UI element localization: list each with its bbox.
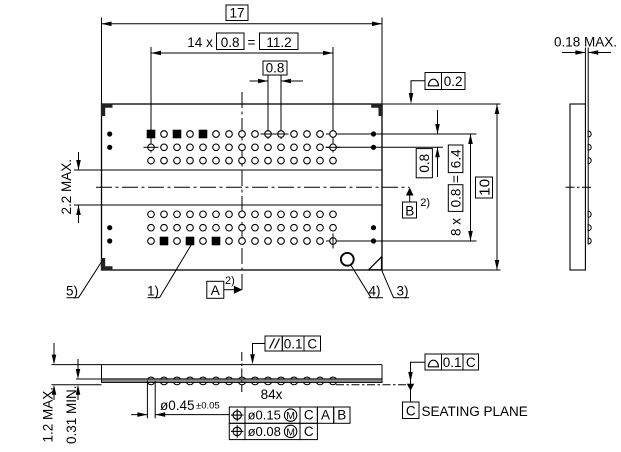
svg-text:C: C: [406, 403, 416, 418]
svg-text:0.8: 0.8: [221, 35, 240, 50]
svg-text:ø0.08: ø0.08: [248, 424, 281, 439]
svg-text:ø0.15: ø0.15: [248, 408, 281, 423]
svg-text:B: B: [337, 408, 346, 423]
svg-text:84x: 84x: [261, 387, 283, 402]
svg-text:2.2 MAX.: 2.2 MAX.: [59, 159, 74, 215]
svg-text:0.8: 0.8: [266, 61, 285, 76]
svg-text:0.1: 0.1: [443, 355, 462, 370]
svg-text:0.18 MAX.: 0.18 MAX.: [554, 35, 617, 50]
svg-text:M: M: [286, 426, 295, 438]
svg-text:B: B: [405, 204, 414, 219]
svg-text:2): 2): [225, 275, 235, 287]
svg-text:C: C: [307, 336, 317, 351]
svg-text:C: C: [466, 355, 476, 370]
svg-text:1.2 MAX.: 1.2 MAX.: [41, 387, 56, 443]
svg-text:2): 2): [420, 197, 430, 209]
svg-text:0.8: 0.8: [417, 154, 432, 173]
svg-text:SEATING PLANE: SEATING PLANE: [422, 404, 528, 419]
svg-text:3): 3): [397, 284, 409, 299]
svg-text:C: C: [304, 408, 314, 423]
svg-text:5): 5): [66, 284, 78, 299]
svg-text:C: C: [304, 424, 314, 439]
svg-text:=: =: [448, 175, 463, 183]
svg-text:±0.05: ±0.05: [196, 401, 220, 412]
svg-text:0.2: 0.2: [444, 74, 463, 89]
svg-text:ø0.45: ø0.45: [160, 398, 195, 413]
svg-text:14 x: 14 x: [187, 35, 213, 50]
svg-text:6.4: 6.4: [448, 149, 463, 168]
svg-text:0.1: 0.1: [284, 336, 303, 351]
svg-text:A: A: [211, 283, 220, 298]
svg-text:17: 17: [229, 5, 244, 20]
svg-text:0.8: 0.8: [448, 189, 463, 208]
svg-text:=: =: [248, 35, 256, 50]
svg-text:0.31 MIN.: 0.31 MIN.: [64, 385, 79, 444]
svg-text:M: M: [286, 410, 295, 422]
svg-text:1): 1): [147, 284, 159, 299]
svg-text:8 x: 8 x: [448, 218, 463, 236]
svg-text:10: 10: [476, 179, 493, 196]
svg-text:A: A: [321, 408, 330, 423]
svg-text:11.2: 11.2: [266, 35, 291, 50]
